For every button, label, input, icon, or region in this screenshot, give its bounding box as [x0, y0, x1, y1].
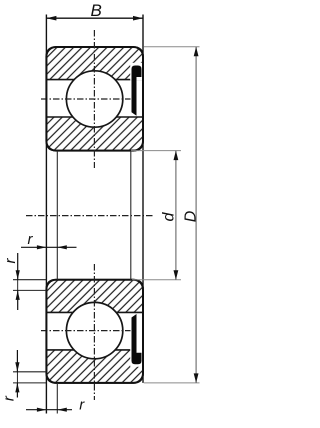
svg-text:d: d [161, 211, 178, 221]
outer ring upper section (hatched) [46, 47, 143, 80]
bearing outline upper section [46, 47, 143, 151]
inner ring upper section (hatched) [46, 117, 143, 151]
dimension line d [175, 151, 177, 280]
shield Z lower (black) [132, 314, 142, 364]
dimension r bottom (horizontal) [26, 409, 72, 411]
extension line r lower-section top-left corner (upper) [13, 279, 46, 281]
extension line left (B left / bearing left edge) [45, 15, 47, 414]
svg-text:D: D [183, 210, 200, 222]
dimension line B [46, 17, 143, 19]
shield groove lower (white cutout) [130, 346, 143, 367]
dimension line D [195, 47, 197, 383]
bearing axis centerline [26, 215, 154, 217]
dimension r mid-left (horizontal) [21, 246, 77, 248]
extension line x130.8 (r corner, right mid) [130, 151, 132, 280]
extension line d top [131, 150, 181, 152]
horizontal centerline upper ball [41, 98, 131, 100]
inner ring lower section (hatched) [46, 280, 143, 313]
extension line r lower-section bottom-left corner (lower) [13, 382, 46, 384]
dimension r vertical upper-left [17, 253, 19, 280]
extension line x57 (r corner, mid) [56, 151, 58, 280]
svg-text:B: B [91, 1, 102, 20]
bearing outline lower section [46, 280, 143, 383]
extension line r lower-section top-left corner (lower) [13, 289, 46, 291]
vertical centerline lower section [93, 264, 95, 400]
extension line right (B right / bearing right edge) [142, 15, 144, 383]
shield groove upper (white cutout) [130, 63, 143, 81]
shield Z upper (black) [132, 66, 142, 116]
extension line d bottom [132, 279, 181, 281]
horizontal centerline lower ball [41, 330, 131, 332]
extension line x57 (r corner, bottom) [56, 383, 58, 414]
ball lower [66, 302, 122, 358]
outer ring lower section (hatched) [46, 350, 143, 383]
ball upper [66, 71, 122, 127]
extension line D bottom [144, 382, 200, 384]
dimension r vertical lower-left [16, 350, 18, 372]
extension line r lower-section bottom-left corner (upper) [13, 371, 46, 373]
vertical centerline upper section [93, 30, 95, 168]
extension line D top [144, 46, 200, 48]
